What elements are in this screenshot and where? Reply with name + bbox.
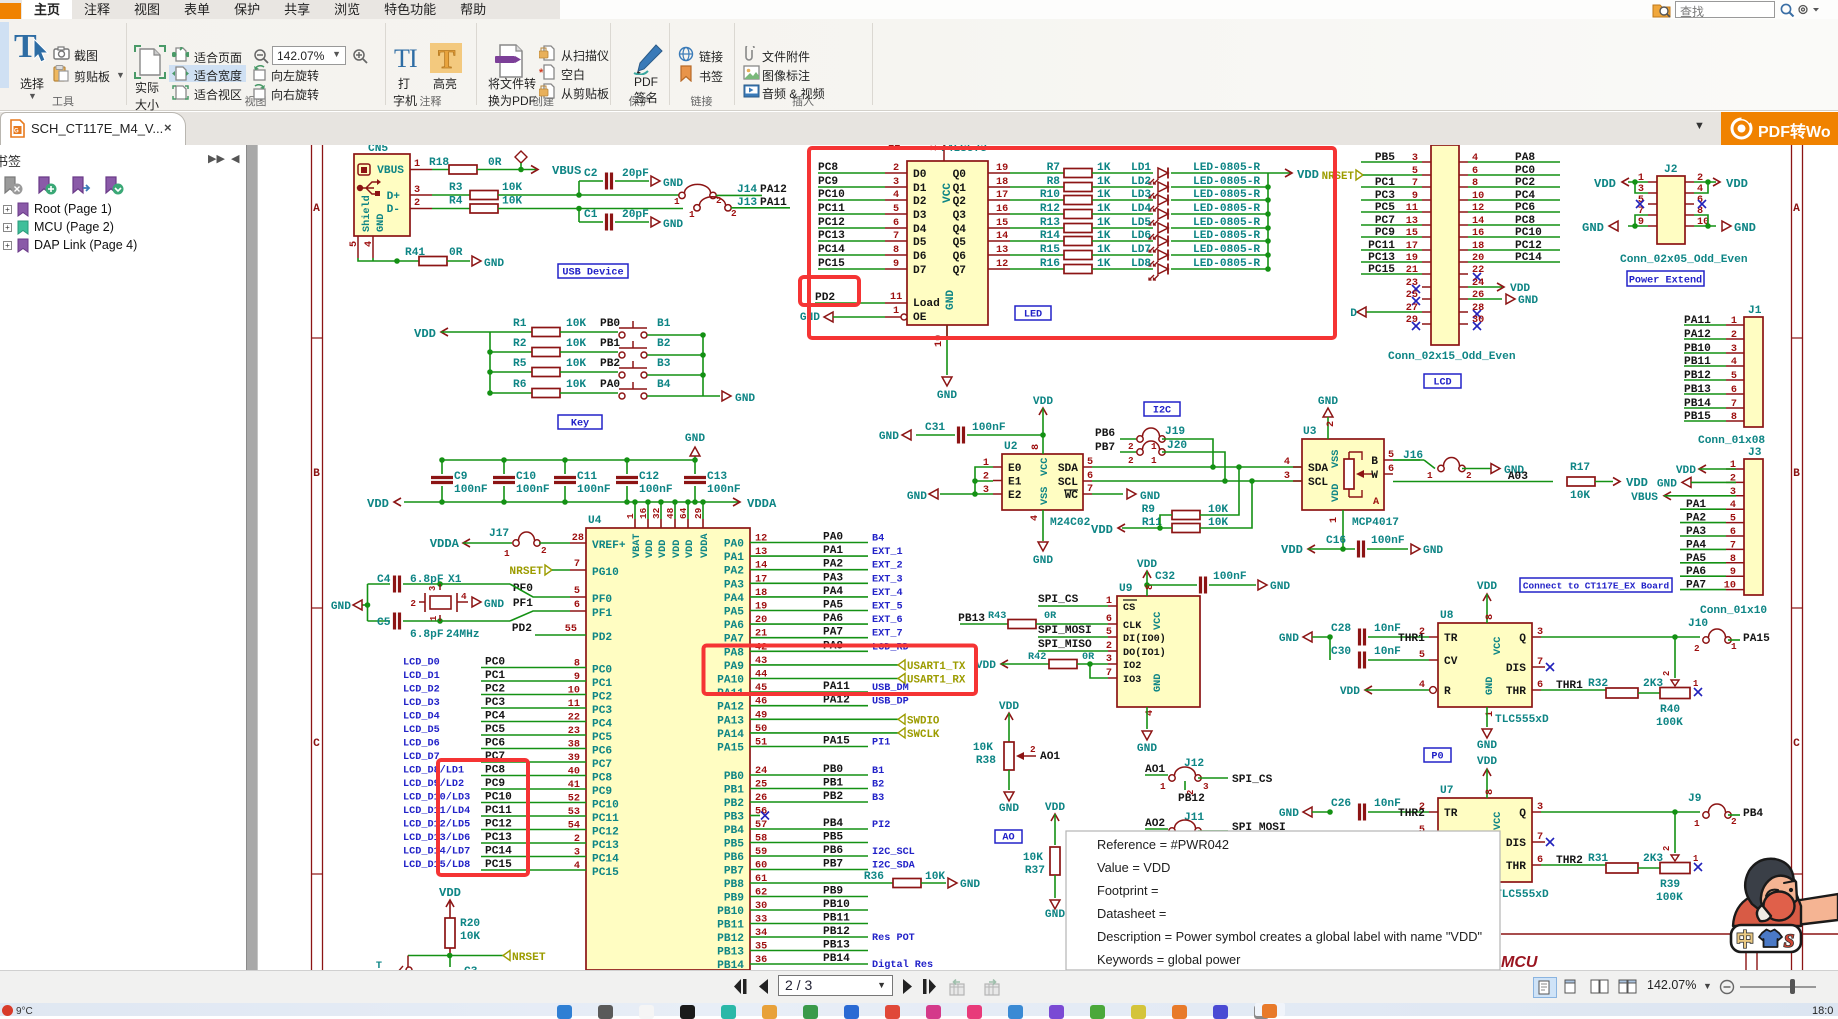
svg-text:48: 48 [665, 507, 676, 519]
svg-text:15: 15 [996, 218, 1008, 229]
svg-text:LCD_D5: LCD_D5 [403, 725, 440, 736]
svg-text:PB1: PB1 [823, 778, 843, 790]
svg-text:PB11: PB11 [823, 913, 850, 925]
svg-text:10K: 10K [1023, 852, 1043, 864]
svg-text:C10: C10 [516, 471, 536, 483]
svg-text:1: 1 [625, 513, 636, 519]
svg-text:中: 中 [1736, 929, 1754, 950]
svg-text:VDD: VDD [672, 540, 683, 558]
svg-text:T: T [394, 45, 410, 71]
svg-text:R18: R18 [429, 157, 449, 169]
svg-text:CS: CS [1123, 603, 1135, 614]
svg-text:PC0: PC0 [592, 665, 612, 677]
svg-text:LED-0805-R: LED-0805-R [1193, 189, 1260, 201]
svg-text:2: 2 [574, 834, 580, 845]
svg-text:20pF: 20pF [622, 168, 649, 180]
svg-text:1K: 1K [1097, 258, 1111, 270]
svg-text:R40: R40 [1660, 704, 1680, 716]
svg-text:16: 16 [996, 204, 1008, 215]
svg-text:PI1: PI1 [872, 738, 890, 749]
svg-text:EXT_2: EXT_2 [872, 561, 903, 572]
svg-text:PB13: PB13 [717, 947, 744, 959]
svg-text:4: 4 [1731, 357, 1737, 368]
svg-text:5: 5 [1730, 514, 1736, 525]
svg-text:VDD: VDD [1331, 484, 1342, 502]
svg-text:R17: R17 [1570, 462, 1590, 474]
svg-text:R37: R37 [1025, 865, 1045, 877]
svg-text:E1: E1 [1008, 477, 1022, 489]
svg-text:2: 2 [716, 195, 722, 206]
svg-text:PA15: PA15 [717, 743, 744, 755]
svg-text:VDD: VDD [367, 497, 389, 511]
svg-text:8: 8 [1485, 789, 1496, 795]
svg-text:PA10: PA10 [717, 675, 744, 687]
svg-text:GND: GND [1485, 677, 1496, 695]
svg-text:LED-0805-R: LED-0805-R [1193, 162, 1260, 174]
svg-text:10K: 10K [460, 931, 480, 943]
svg-text:PA11: PA11 [760, 197, 787, 209]
svg-text:GND: GND [1657, 478, 1677, 490]
svg-text:PF1: PF1 [513, 598, 533, 610]
svg-text:R12: R12 [1040, 203, 1060, 215]
svg-text:10: 10 [568, 686, 580, 697]
svg-text:VDDA: VDDA [430, 537, 460, 551]
svg-text:PA4: PA4 [823, 586, 843, 598]
svg-text:GND: GND [1518, 295, 1538, 307]
svg-text:LCD_D3: LCD_D3 [403, 698, 440, 709]
svg-text:LED-0805-R: LED-0805-R [1193, 258, 1260, 270]
svg-text:SDA: SDA [1058, 463, 1078, 475]
svg-text:R41: R41 [405, 247, 425, 259]
svg-text:Q: Q [1519, 808, 1526, 820]
svg-text:PB5: PB5 [724, 839, 744, 851]
svg-text:USB Device: USB Device [562, 267, 623, 279]
svg-text:SPI_MISO: SPI_MISO [1038, 639, 1092, 651]
svg-text:VDD: VDD [976, 660, 996, 672]
svg-text:VDD: VDD [1676, 465, 1696, 477]
svg-text:PB2: PB2 [823, 791, 843, 803]
svg-text:1K: 1K [1097, 176, 1111, 188]
svg-text:CN5: CN5 [368, 145, 388, 155]
svg-text:VSS: VSS [1040, 487, 1051, 505]
svg-text:1K: 1K [1097, 244, 1111, 256]
svg-text:D1: D1 [913, 183, 927, 195]
svg-text:PA5: PA5 [724, 607, 744, 619]
svg-text:LD6: LD6 [1131, 230, 1151, 242]
svg-text:C11: C11 [577, 471, 597, 483]
svg-text:SCL: SCL [1058, 477, 1078, 489]
svg-text:3: 3 [1731, 344, 1737, 355]
svg-text:J20: J20 [1167, 440, 1187, 452]
svg-text:THR2: THR2 [1398, 808, 1425, 820]
svg-text:100nF: 100nF [1213, 571, 1247, 583]
svg-text:PI2: PI2 [872, 820, 890, 831]
svg-text:7: 7 [1730, 540, 1736, 551]
svg-text:D0: D0 [913, 169, 927, 181]
svg-text:LCD_D7: LCD_D7 [403, 752, 440, 763]
svg-text:X1: X1 [448, 574, 462, 586]
svg-text:4: 4 [574, 861, 580, 872]
svg-text:PC8: PC8 [592, 773, 612, 785]
svg-text:CV: CV [1444, 656, 1458, 668]
svg-text:PB8: PB8 [724, 879, 744, 891]
svg-text:PB2: PB2 [724, 798, 744, 810]
svg-text:LED-0805-R: LED-0805-R [1193, 230, 1260, 242]
svg-text:25: 25 [1406, 290, 1418, 301]
svg-text:EXT_4: EXT_4 [872, 588, 903, 599]
svg-text:29: 29 [1406, 315, 1418, 326]
svg-text:VDD: VDD [1297, 168, 1319, 182]
svg-text:D: D [1350, 308, 1357, 320]
svg-text:LCD_D0: LCD_D0 [403, 658, 440, 669]
svg-text:USART1_RX: USART1_RX [907, 675, 966, 687]
svg-text:Key: Key [571, 419, 589, 430]
svg-text:2: 2 [1128, 455, 1134, 466]
svg-text:PB5: PB5 [823, 832, 843, 844]
svg-text:LED-0805-R: LED-0805-R [1193, 217, 1260, 229]
svg-text:B4: B4 [872, 534, 884, 545]
svg-text:C28: C28 [1331, 623, 1351, 635]
svg-text:VDD: VDD [439, 886, 461, 900]
svg-text:PA12: PA12 [717, 702, 744, 714]
svg-text:PA0: PA0 [823, 532, 843, 544]
svg-text:OE: OE [913, 312, 927, 324]
svg-text:GND: GND [376, 214, 387, 232]
svg-text:3: 3 [428, 586, 438, 591]
svg-text:3: 3 [574, 848, 580, 859]
svg-text:12: 12 [996, 259, 1008, 270]
svg-text:PB6: PB6 [1095, 428, 1115, 440]
svg-text:PB13: PB13 [823, 940, 850, 952]
svg-text:PA6: PA6 [823, 613, 843, 625]
svg-text:PB12: PB12 [823, 926, 850, 938]
svg-text:GND: GND [907, 491, 927, 503]
svg-text:THR1: THR1 [1398, 633, 1425, 645]
svg-text:SPI_MOSI: SPI_MOSI [1038, 625, 1092, 637]
svg-text:VDD: VDD [1091, 523, 1113, 537]
svg-text:NRSET: NRSET [512, 952, 546, 964]
svg-text:6.8pF: 6.8pF [410, 629, 444, 641]
svg-text:PB6: PB6 [823, 845, 843, 857]
svg-text:Conn_01x08: Conn_01x08 [1698, 435, 1765, 447]
svg-text:PA0: PA0 [724, 539, 744, 551]
svg-text:R16: R16 [1040, 258, 1060, 270]
svg-text:SDA: SDA [1308, 463, 1328, 475]
svg-text:100K: 100K [1656, 892, 1683, 904]
svg-text:I2C: I2C [1153, 406, 1171, 417]
svg-text:D6: D6 [913, 251, 927, 263]
svg-text:PC12: PC12 [592, 827, 619, 839]
svg-text:C32: C32 [1155, 571, 1175, 583]
svg-text:6: 6 [1731, 385, 1737, 396]
svg-text:EXT_1: EXT_1 [872, 547, 903, 558]
svg-text:10K: 10K [566, 379, 586, 391]
svg-text:EXT_5: EXT_5 [872, 602, 903, 613]
svg-text:PA1: PA1 [823, 545, 843, 557]
svg-text:1: 1 [1151, 441, 1157, 452]
svg-text:PA15: PA15 [823, 736, 850, 748]
svg-text:LD5: LD5 [1131, 217, 1151, 229]
svg-text:R7: R7 [1047, 162, 1060, 174]
svg-text:7: 7 [893, 231, 899, 242]
svg-text:LCD_D2: LCD_D2 [403, 685, 440, 696]
svg-text:J10: J10 [1688, 618, 1708, 630]
svg-text:PB0: PB0 [823, 764, 843, 776]
svg-text:IO3: IO3 [1123, 675, 1141, 686]
svg-text:LCD_D1: LCD_D1 [403, 671, 440, 682]
svg-text:PB3: PB3 [724, 812, 744, 824]
svg-text:Digtal Res: Digtal Res [872, 959, 933, 970]
svg-text:PB7: PB7 [724, 866, 744, 878]
svg-text:GND: GND [484, 599, 504, 611]
svg-text:1: 1 [1160, 781, 1166, 792]
svg-text:0R: 0R [488, 157, 502, 169]
svg-text:R9: R9 [1142, 504, 1156, 516]
svg-text:TLC555xD: TLC555xD [1495, 889, 1549, 901]
svg-text:55: 55 [565, 624, 577, 635]
svg-text:J14: J14 [737, 184, 757, 196]
svg-text:EXT_7: EXT_7 [872, 629, 903, 640]
svg-text:PB4: PB4 [724, 825, 744, 837]
svg-text:J2: J2 [1664, 164, 1678, 176]
svg-text:CLK: CLK [1123, 621, 1142, 632]
svg-text:VDD: VDD [999, 701, 1019, 713]
svg-text:I2C_SDA: I2C_SDA [872, 861, 916, 872]
svg-text:GND: GND [1153, 674, 1164, 692]
svg-text:GND: GND [1279, 633, 1299, 645]
svg-text:VDDA: VDDA [700, 533, 711, 558]
svg-text:8: 8 [893, 245, 899, 256]
svg-text:11: 11 [890, 292, 902, 303]
svg-text:Q4: Q4 [953, 224, 967, 236]
svg-text:24MHz: 24MHz [446, 629, 480, 641]
svg-text:U2: U2 [1004, 441, 1018, 453]
svg-text:VREF+: VREF+ [592, 540, 626, 552]
svg-text:VBUS: VBUS [1631, 492, 1658, 504]
svg-text:Q3: Q3 [953, 210, 967, 222]
svg-text:PA12: PA12 [823, 695, 850, 707]
svg-text:GND: GND [685, 433, 705, 445]
svg-text:GND: GND [331, 601, 351, 613]
svg-text:18: 18 [996, 177, 1008, 188]
svg-text:16: 16 [638, 507, 649, 519]
svg-text:R2: R2 [513, 338, 527, 350]
svg-text:Conn_02x15_Odd_Even: Conn_02x15_Odd_Even [1388, 351, 1516, 363]
svg-text:0R: 0R [1044, 611, 1057, 622]
svg-text:LD8: LD8 [1131, 258, 1151, 270]
svg-text:VBUS: VBUS [377, 165, 404, 177]
svg-text:PB4: PB4 [1743, 808, 1763, 820]
svg-text:EXT_3: EXT_3 [872, 574, 903, 585]
svg-text:100nF: 100nF [577, 484, 611, 496]
svg-text:I2C_SCL: I2C_SCL [872, 847, 915, 858]
svg-text:Q7: Q7 [953, 265, 966, 277]
svg-text:GND: GND [1270, 581, 1290, 593]
svg-text:PB12: PB12 [717, 933, 744, 945]
svg-text:Shield: Shield [361, 195, 373, 232]
svg-text:Q6: Q6 [953, 251, 967, 263]
svg-text:1: 1 [1151, 455, 1157, 466]
svg-text:14: 14 [996, 231, 1008, 242]
svg-text:1: 1 [1694, 818, 1700, 829]
svg-text:10K: 10K [502, 196, 522, 208]
svg-text:C4: C4 [377, 574, 391, 586]
svg-text:GND: GND [945, 290, 957, 310]
svg-text:C: C [1793, 738, 1800, 750]
svg-text:THR: THR [1506, 686, 1526, 698]
svg-text:R4: R4 [449, 196, 463, 208]
svg-text:PA6: PA6 [724, 620, 744, 632]
svg-text:C12: C12 [639, 471, 659, 483]
svg-text:PC1: PC1 [592, 678, 612, 690]
svg-text:1: 1 [1329, 517, 1340, 523]
svg-text:PB0: PB0 [724, 771, 744, 783]
svg-text:23: 23 [568, 726, 580, 737]
svg-text:C: C [313, 738, 320, 750]
svg-text:PB6: PB6 [724, 852, 744, 864]
svg-text:PA3: PA3 [724, 579, 744, 591]
svg-text:PA2: PA2 [823, 559, 843, 571]
svg-text:LCD: LCD [1433, 378, 1451, 389]
svg-text:PB1: PB1 [600, 338, 620, 350]
svg-text:D+: D+ [387, 191, 401, 203]
svg-text:WC: WC [1065, 490, 1079, 502]
svg-text:100nF: 100nF [1371, 535, 1405, 547]
svg-text:PC6: PC6 [592, 746, 612, 758]
svg-text:6: 6 [1730, 527, 1736, 538]
svg-text:A: A [1373, 497, 1380, 508]
svg-text:29: 29 [693, 507, 704, 519]
svg-text:6: 6 [893, 218, 899, 229]
svg-text:I: I [409, 45, 418, 71]
svg-text:C5: C5 [377, 617, 391, 629]
svg-text:7: 7 [574, 559, 580, 570]
svg-text:0R: 0R [449, 247, 463, 259]
svg-text:PC10: PC10 [592, 800, 619, 812]
svg-text:8: 8 [1485, 614, 1496, 620]
svg-text:B2: B2 [872, 780, 884, 791]
svg-text:PF0: PF0 [513, 583, 533, 595]
svg-text:VDD: VDD [1137, 559, 1157, 571]
svg-text:AO: AO [1002, 833, 1014, 844]
svg-text:E0: E0 [1008, 463, 1022, 475]
svg-text:PB2: PB2 [600, 358, 620, 370]
svg-text:MCU: MCU [1501, 954, 1538, 970]
svg-text:J11: J11 [1184, 812, 1204, 824]
svg-text:A: A [313, 203, 320, 215]
svg-text:U9: U9 [1119, 583, 1133, 595]
svg-text:U8: U8 [1440, 610, 1454, 622]
svg-text:NRSET: NRSET [509, 566, 543, 578]
svg-text:PC9: PC9 [592, 786, 612, 798]
svg-text:PC14: PC14 [592, 854, 619, 866]
svg-text:PA13: PA13 [717, 715, 744, 727]
svg-text:1K: 1K [1097, 203, 1111, 215]
svg-text:PB4: PB4 [823, 818, 843, 830]
svg-text:8: 8 [1731, 412, 1737, 423]
svg-text:11: 11 [568, 699, 580, 710]
svg-text:P0: P0 [1431, 752, 1443, 763]
svg-text:3: 3 [1284, 471, 1290, 482]
svg-text:1K: 1K [1097, 230, 1111, 242]
svg-text:Conn_02x05_Odd_Even: Conn_02x05_Odd_Even [1620, 254, 1748, 266]
svg-text:THR: THR [1506, 861, 1526, 873]
svg-text:IO2: IO2 [1123, 661, 1141, 672]
svg-text:VDD: VDD [658, 540, 669, 558]
svg-text:TLC555xD: TLC555xD [1495, 714, 1549, 726]
svg-text:1: 1 [429, 616, 439, 621]
svg-text:W: W [1371, 470, 1378, 482]
svg-text:R42: R42 [1028, 652, 1046, 663]
svg-text:Conn_01x10: Conn_01x10 [1700, 605, 1767, 617]
svg-text:8: 8 [1031, 444, 1042, 450]
svg-text:3: 3 [1203, 781, 1209, 792]
svg-text:EXT_6: EXT_6 [872, 615, 903, 626]
svg-text:GND: GND [484, 258, 504, 270]
svg-text:PD2: PD2 [592, 632, 612, 644]
svg-text:4: 4 [1284, 457, 1290, 468]
svg-text:100nF: 100nF [972, 422, 1006, 434]
svg-text:T: T [438, 45, 455, 73]
svg-text:10K: 10K [925, 871, 945, 883]
svg-text:PF1: PF1 [592, 608, 612, 620]
svg-text:TR: TR [1444, 633, 1458, 645]
svg-text:VCC: VCC [1040, 458, 1051, 476]
svg-text:1: 1 [1731, 641, 1737, 652]
svg-text:7: 7 [1537, 832, 1543, 843]
svg-text:PA1: PA1 [724, 552, 744, 564]
svg-text:D7: D7 [913, 265, 926, 277]
svg-text:AO1: AO1 [1040, 751, 1060, 763]
svg-text:9: 9 [1730, 567, 1736, 578]
svg-text:GND: GND [937, 390, 957, 402]
svg-text:2: 2 [893, 163, 899, 174]
svg-text:PA14: PA14 [717, 729, 744, 741]
svg-text:100nF: 100nF [454, 484, 488, 496]
svg-text:VDD: VDD [685, 540, 696, 558]
svg-text:10K: 10K [973, 742, 993, 754]
svg-text:Reference = #PWR042: Reference = #PWR042 [1097, 837, 1229, 852]
svg-text:C13: C13 [707, 471, 727, 483]
svg-text:B1: B1 [872, 766, 884, 777]
svg-text:VDD: VDD [1281, 543, 1303, 557]
svg-text:PB10: PB10 [717, 906, 744, 918]
svg-text:USB_DP: USB_DP [872, 697, 909, 708]
svg-text:VDD: VDD [1726, 177, 1748, 191]
svg-text:LCD_D9/LD2: LCD_D9/LD2 [403, 778, 464, 790]
svg-text:U3: U3 [1303, 426, 1317, 438]
svg-text:PA8: PA8 [724, 647, 744, 659]
svg-text:5: 5 [574, 586, 580, 597]
svg-text:LD4: LD4 [1131, 203, 1151, 215]
svg-text:VBUS: VBUS [552, 164, 581, 178]
svg-text:D-: D- [387, 204, 400, 216]
svg-text:R14: R14 [1040, 230, 1060, 242]
svg-text:PA11: PA11 [823, 681, 850, 693]
svg-text:1: 1 [674, 196, 680, 207]
svg-text:2: 2 [1731, 816, 1737, 827]
svg-text:PC3: PC3 [592, 705, 612, 717]
svg-text:PB1: PB1 [724, 785, 744, 797]
svg-text:2: 2 [1030, 744, 1036, 755]
svg-text:PB12: PB12 [1178, 793, 1205, 805]
svg-text:2: 2 [1662, 671, 1672, 676]
svg-text:PA15: PA15 [1743, 633, 1770, 645]
svg-text:B: B [1793, 468, 1800, 480]
svg-text:Q2: Q2 [953, 196, 967, 208]
svg-text:J12: J12 [1184, 758, 1204, 770]
svg-text:J19: J19 [1165, 426, 1185, 438]
